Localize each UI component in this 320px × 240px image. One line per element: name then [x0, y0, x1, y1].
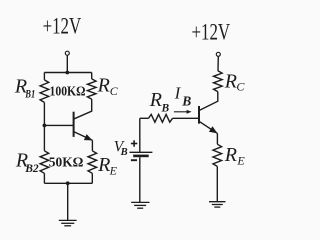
wire: emitter diagonal (right) — [200, 122, 218, 134]
wire: bottom rail (left) — [44, 182, 92, 184]
wire: left branch between RB1 and base node — [43, 102, 45, 150]
svg-text:+12V: +12V — [43, 13, 82, 38]
emitter arrowhead Q2 — [209, 126, 218, 133]
resistor RC (right) zigzag — [214, 71, 223, 92]
svg-text:E: E — [236, 153, 245, 167]
svg-text:R: R — [97, 75, 110, 97]
wire: top rail (left) — [44, 72, 91, 74]
svg-text:R: R — [224, 144, 237, 166]
emitter arrowhead Q1 — [84, 134, 93, 140]
wire: RE lower lead (left) — [91, 173, 93, 183]
wire: emitter diagonal (left) — [74, 132, 92, 141]
ground (right, RE) — [209, 202, 226, 207]
resistor RB2 zigzag — [40, 151, 49, 174]
wire: left branch upper lead — [43, 73, 45, 80]
terminal circle (right supply) — [216, 52, 220, 56]
resistor RC (left) zigzag — [87, 79, 96, 99]
svg-text:R: R — [224, 71, 237, 93]
svg-text:B: B — [161, 102, 170, 114]
resistor RB zigzag (horizontal) — [149, 114, 173, 122]
svg-text:B: B — [181, 93, 191, 108]
wire: base wire left segment (right circuit) — [140, 117, 149, 119]
battery minus sign — [131, 159, 137, 161]
wire: supply drop (right) — [217, 56, 219, 70]
current arrow IB — [174, 111, 187, 113]
svg-text:50KΩ: 50KΩ — [49, 156, 84, 171]
node: base junction dot — [43, 124, 47, 128]
ground (VB) — [131, 202, 149, 208]
wire: collector lead (right) — [200, 92, 218, 111]
wire: emitter lead down to RE (right) — [216, 133, 218, 144]
terminal circle (left supply) — [65, 51, 69, 55]
svg-text:B2: B2 — [24, 161, 38, 175]
svg-text:E: E — [109, 164, 118, 178]
wire: VB branch from base corner down — [139, 118, 141, 152]
ground (left) — [59, 220, 77, 225]
wire: collector lead (left) — [74, 99, 92, 119]
wire: left branch lower lead to bottom rail — [43, 173, 45, 183]
battery short plate — [133, 155, 149, 158]
wire: right branch upper lead (RC left) — [91, 73, 93, 79]
wire: base wire right segment — [173, 117, 200, 119]
wire: base wire (left) — [44, 124, 73, 126]
svg-text:I: I — [174, 84, 182, 103]
svg-text:+12V: +12V — [192, 20, 231, 45]
battery long plate — [130, 151, 153, 153]
resistor RE (left) zigzag — [88, 151, 97, 174]
node: top rail junction dot (left) — [65, 71, 69, 75]
wire: ground drop (left) — [67, 183, 69, 220]
wire: VB to ground — [139, 157, 141, 202]
wire: supply drop (left) — [66, 55, 68, 72]
svg-text:B1: B1 — [25, 87, 36, 101]
svg-text:R: R — [149, 89, 162, 111]
svg-text:100KΩ: 100KΩ — [50, 85, 86, 100]
battery plus sign — [131, 140, 137, 146]
resistor RB1 zigzag — [40, 80, 49, 103]
wire: RE lead to ground (right) — [216, 166, 218, 201]
wire: emitter lead down to RE (left) — [91, 140, 93, 150]
svg-text:C: C — [236, 80, 245, 94]
svg-text:B: B — [120, 147, 128, 158]
svg-text:C: C — [110, 84, 119, 98]
transistor Q1 bar — [73, 112, 75, 137]
resistor RE (right) zigzag — [213, 144, 222, 166]
transistor Q2 bar — [198, 106, 200, 124]
node: bottom rail junction dot (left) — [66, 181, 70, 185]
svg-text:R: R — [97, 154, 110, 176]
